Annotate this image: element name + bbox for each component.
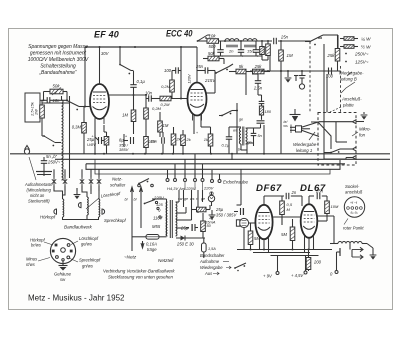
legend half watt resistor <box>340 44 371 50</box>
input box pickup <box>25 93 40 122</box>
svg-text:Löschkopf: Löschkopf <box>79 236 99 241</box>
wire ECC40 top <box>196 47 198 63</box>
svg-text:+ 4,5V: + 4,5V <box>291 273 304 278</box>
label 30V <box>101 51 110 56</box>
wire rails battery 1 <box>237 249 332 251</box>
svg-text:+: + <box>256 55 258 59</box>
wire shield top <box>42 96 70 103</box>
wire top HT bus left <box>84 46 197 108</box>
plug connector playback <box>290 125 302 134</box>
capacitor 10n coupling <box>145 91 156 102</box>
svg-text:10k: 10k <box>208 34 216 39</box>
wire mic to grid <box>244 223 256 250</box>
svg-text:Gehäuse: Gehäuse <box>54 272 72 277</box>
wire fb down <box>245 72 247 96</box>
wire heads bottom <box>63 215 99 220</box>
wire DF67 topcap <box>264 196 284 205</box>
svg-text:+ 9V: + 9V <box>263 274 273 279</box>
svg-text:+: + <box>241 55 243 59</box>
svg-text:ws: ws <box>233 129 238 133</box>
resistor 2k ECC40 cathode <box>181 130 192 154</box>
head Hoerkopf coil <box>40 199 64 220</box>
wire DL67 topcap <box>309 196 314 204</box>
capacitor 5n 250V <box>41 154 61 171</box>
resistor 0.5M DF67 <box>280 196 293 225</box>
label Gehaeuse <box>54 272 72 283</box>
svg-text:5n „b“: 5n „b“ <box>46 154 58 159</box>
svg-text:ECC 40: ECC 40 <box>166 29 193 39</box>
svg-text:350 / 385V: 350 / 385V <box>216 213 237 218</box>
wire filter ground <box>214 44 262 56</box>
svg-text:+: + <box>196 131 198 135</box>
svg-text:2n: 2n <box>228 49 234 54</box>
svg-text:anschluß: anschluß <box>345 190 363 195</box>
svg-text:„Bandaufnahme“: „Bandaufnahme“ <box>38 70 77 76</box>
wire rail 2 <box>55 158 390 160</box>
resistor 2.5+15k 2W <box>40 100 45 136</box>
wire fan crossing <box>302 122 320 137</box>
wire transformer primary <box>152 199 167 237</box>
tube label EF40 <box>94 30 119 40</box>
legend quarter watt resistor <box>340 37 371 42</box>
svg-text:ge/ws: ge/ws <box>81 242 93 247</box>
switch anode select <box>119 47 133 74</box>
svg-text:0,3M: 0,3M <box>72 125 82 130</box>
terminal erdschraube <box>203 180 248 191</box>
label Wiedergabeleitung B <box>339 71 364 94</box>
dashed box Anschlussplatte <box>318 113 356 166</box>
svg-text:Bandschalter: Bandschalter <box>200 253 225 258</box>
tube EF40 <box>90 84 109 124</box>
svg-text:25µ: 25µ <box>215 207 224 212</box>
label Verbindung <box>103 269 175 280</box>
svg-text:Wiedergab​e-: Wiedergab​e- <box>339 71 364 76</box>
tube label ECC40 <box>166 29 193 39</box>
capacitor filter mid <box>238 41 255 56</box>
label 215V <box>204 78 216 83</box>
capacitor 25n ECC40 <box>187 63 216 84</box>
dashed playback line <box>309 42 311 113</box>
svg-text:250V~: 250V~ <box>354 52 369 57</box>
svg-text:25n: 25n <box>195 64 204 69</box>
svg-text:ge: ge <box>239 118 243 122</box>
plug contact right 1 <box>319 120 357 124</box>
svg-text:M55: M55 <box>152 224 161 229</box>
svg-text:(Minusleitung: (Minusleitung <box>27 188 52 193</box>
label 15mA <box>205 218 216 225</box>
caption Metz - Musikus - Jahr 1952 <box>28 294 125 303</box>
resistor B+ vertical <box>262 41 270 60</box>
svg-text:Steckerstift): Steckerstift) <box>28 199 50 204</box>
wire section links <box>232 154 241 205</box>
label Sockelanschluss <box>345 184 363 195</box>
resistor 180 <box>259 104 271 120</box>
capacitor 100 grid <box>164 67 181 80</box>
label Minus pin <box>26 257 50 268</box>
svg-text:1M: 1M <box>122 113 128 118</box>
svg-text:120V: 120V <box>187 74 192 84</box>
svg-text:ge: ge <box>201 197 205 201</box>
resistor 1k ECC40 cathode <box>204 134 213 154</box>
antenna jack <box>299 71 306 89</box>
switch record <box>42 135 61 146</box>
svg-text:gemessen mit Instrument: gemessen mit Instrument <box>30 51 87 57</box>
switch playback B <box>305 35 338 48</box>
switch top ECC40 <box>197 35 210 42</box>
svg-text:25n: 25n <box>315 189 324 194</box>
socket pins <box>52 244 73 261</box>
plug contact mic 2 <box>346 155 357 159</box>
tube ECC40 <box>188 83 207 121</box>
wire heads top <box>54 186 99 200</box>
wire ground rail 1 <box>10 153 390 155</box>
svg-text:125V~: 125V~ <box>355 60 369 65</box>
resistor 2k bias <box>171 127 182 154</box>
capacitor 25n out <box>274 35 289 45</box>
wire rail 3 <box>86 163 345 165</box>
tube label DL67 <box>300 183 326 194</box>
wire ECC40 anode <box>207 73 216 93</box>
output choke <box>330 241 362 244</box>
switch ECC40 anode <box>215 64 233 74</box>
electrolytic 25u supply <box>180 224 198 231</box>
svg-text:200: 200 <box>313 260 322 265</box>
label heater terminals <box>167 186 196 191</box>
resistor 25k fb <box>253 46 271 74</box>
svg-text:gn/ws: gn/ws <box>82 264 94 269</box>
resistor 0.3M grid leak <box>72 107 87 154</box>
svg-text:1000Ω/V Meßbereich 300V: 1000Ω/V Meßbereich 300V <box>28 57 89 63</box>
svg-text:leitung B: leitung B <box>340 77 357 82</box>
resistor 25k decoupling <box>144 134 158 154</box>
capacitor filter right <box>253 41 259 56</box>
svg-text:¼ W: ¼ W <box>361 37 371 42</box>
svg-text:1,5A: 1,5A <box>208 247 216 251</box>
svg-text:Sockel-: Sockel- <box>345 184 360 189</box>
switch EF40 grid <box>66 100 90 111</box>
svg-text:0,2M: 0,2M <box>161 102 171 107</box>
capacitor 0.1u anode <box>130 71 145 95</box>
svg-text:Anschluß-: Anschluß- <box>341 97 362 102</box>
filter choke 2 <box>243 39 257 47</box>
resistor 0.2M grid <box>161 80 174 99</box>
svg-text:Schalterstellung: Schalterstellung <box>40 64 76 70</box>
svg-text:2W: 2W <box>35 109 39 116</box>
wire DL67 anode <box>317 216 334 241</box>
svg-text:250V~: 250V~ <box>47 160 61 165</box>
capacitor 180 top <box>258 95 264 104</box>
resistor supply H <box>192 205 211 212</box>
socket circle Sockelanschluss <box>344 197 364 217</box>
svg-text:25n: 25n <box>280 35 289 40</box>
svg-text:1M: 1M <box>163 123 169 128</box>
svg-text:+: + <box>221 55 223 59</box>
label wire colors <box>178 197 205 201</box>
svg-text:platte: platte <box>342 103 354 108</box>
terminal 0 <box>330 248 340 277</box>
svg-text:50k: 50k <box>52 84 60 89</box>
wire top HT bus mid <box>197 40 310 42</box>
svg-text:Netz-: Netz- <box>112 177 123 182</box>
capacitor EQ mid <box>247 121 265 128</box>
resistor 0.2M coupling <box>156 96 188 107</box>
svg-text:Hörkopf: Hörkopf <box>40 215 56 220</box>
svg-text:220V: 220V <box>203 186 214 191</box>
switch EQ <box>219 111 237 117</box>
ground record branch <box>36 172 52 177</box>
svg-text:EF 40: EF 40 <box>94 30 119 40</box>
svg-text:Aufnahme: Aufnahme <box>199 259 220 264</box>
ground mic <box>356 112 367 122</box>
head Sprechkopf coil <box>99 199 127 223</box>
svg-text:Sprechkopf: Sprechkopf <box>79 258 101 263</box>
svg-text:25k: 25k <box>254 64 263 69</box>
wire ECC40 cathode legs <box>194 115 211 134</box>
fuse 0.16A <box>132 235 167 253</box>
label Sprechkopf pin <box>70 258 101 269</box>
svg-text:ge: ge <box>184 197 188 201</box>
ground heads <box>74 188 81 199</box>
label 25u 350/385V <box>215 207 237 218</box>
svg-text:a₂ a₁: a₂ a₁ <box>351 211 358 215</box>
wire plate internal <box>324 113 347 153</box>
svg-text:5M: 5M <box>281 232 287 237</box>
resistor 1M detector <box>279 41 293 71</box>
legend 125V dot <box>345 60 369 65</box>
electrolytic smoothing <box>234 208 244 215</box>
capacitor 2.5n fb <box>252 74 263 95</box>
svg-text:Erdschraube: Erdschraube <box>223 180 248 185</box>
ground mid <box>285 71 292 83</box>
svg-text:~Netz: ~Netz <box>124 255 137 260</box>
svg-text:br/ws: br/ws <box>31 243 42 248</box>
svg-text:Mikro-: Mikro- <box>359 127 372 132</box>
label Hoerkopf pin <box>30 238 53 248</box>
svg-text:Steckfassung von unten gese: Steckfassung von unten gesehen <box>108 275 173 280</box>
cable shield wavy <box>62 100 70 180</box>
wire rail drops <box>260 238 314 253</box>
wire playback drop 1 <box>323 44 325 113</box>
wire DF67 cathode drop <box>264 238 309 250</box>
svg-text:30V: 30V <box>101 51 110 56</box>
svg-text:nicht an: nicht an <box>30 193 45 198</box>
svg-text:Sprechkopf: Sprechkopf <box>104 218 127 223</box>
dashed line B <box>340 66 342 113</box>
svg-text:10n: 10n <box>145 91 153 96</box>
label Loeschkopf pin <box>71 236 99 247</box>
ground erdschraube <box>212 170 220 180</box>
wire playback drop 2 <box>326 74 328 113</box>
wire rails battery 2 <box>253 253 319 256</box>
switch mode <box>199 253 246 276</box>
resistor screen dropper <box>260 41 265 60</box>
svg-text:1M: 1M <box>287 53 293 58</box>
switch in plate <box>324 149 346 159</box>
resistor 1M screen <box>122 110 136 122</box>
svg-text:5n: 5n <box>258 133 262 138</box>
label brws <box>284 120 289 128</box>
svg-text:10M: 10M <box>331 204 339 209</box>
svg-text:Aus: Aus <box>204 271 213 276</box>
text Aufnahmetaste <box>24 157 53 204</box>
microphone symbol <box>236 218 248 227</box>
svg-text:Wiedergabe-: Wiedergabe- <box>293 142 318 147</box>
svg-text:220V: 220V <box>153 196 165 201</box>
svg-text:Aufnahmetaste: Aufnahmetaste <box>24 182 53 187</box>
label Netzteil <box>158 258 174 263</box>
note voltage measurement text <box>28 44 89 76</box>
tube label DF67 <box>256 183 282 194</box>
svg-text:DF67: DF67 <box>256 183 282 194</box>
legend 250V dot <box>345 52 369 57</box>
transformer EQ <box>233 127 252 152</box>
wire chassis loop <box>86 159 340 174</box>
electrolytic 8u <box>119 134 134 152</box>
svg-text:25k: 25k <box>326 53 335 58</box>
svg-text:Metz - Musikus - Jahr 1952: Metz - Musikus - Jahr 1952 <box>28 294 125 303</box>
resistor 0.2M screen2 <box>144 95 162 134</box>
trimmer resistor 50k <box>44 84 68 96</box>
tube DF67 <box>255 205 272 244</box>
wire input node <box>40 92 68 102</box>
electrolytic 25u cathode <box>86 119 107 154</box>
terminal +4.5V <box>291 256 309 279</box>
diode rectifier <box>176 236 205 247</box>
svg-text:Bandlaufwerk: Bandlaufwerk <box>64 225 93 230</box>
label roter Punkt <box>343 219 364 231</box>
capacitor 10n input <box>44 97 68 103</box>
svg-text:0,1µ: 0,1µ <box>137 79 146 84</box>
capacitor 0.1u EQ <box>222 127 242 154</box>
svg-text:bl: bl <box>125 198 128 202</box>
svg-text:15mA: 15mA <box>205 220 216 225</box>
svg-text:180: 180 <box>265 109 272 114</box>
resistor 1M decoupling <box>158 112 169 137</box>
capacitor 100 output <box>326 68 341 79</box>
terminal +9V <box>263 256 279 279</box>
wire screen <box>133 95 135 112</box>
resistor 10M DL67 <box>317 201 339 221</box>
svg-text:leitung 1: leitung 1 <box>296 148 313 153</box>
tube DL67 <box>301 204 318 243</box>
mains plug arrow <box>141 241 144 248</box>
wire plate slant <box>311 122 331 149</box>
label Anschlussplatte <box>330 97 362 113</box>
fuse 1.5A <box>202 238 217 258</box>
label Netz <box>124 255 137 260</box>
svg-text:Minus: Minus <box>26 257 38 262</box>
wire screen resistor down <box>133 122 135 135</box>
svg-text:schalter: schalter <box>110 183 126 188</box>
filter choke 1 <box>225 39 239 47</box>
resistor cathode 2k <box>104 125 109 154</box>
socket ground <box>59 261 68 271</box>
capacitor 5n EQ <box>247 128 262 143</box>
svg-text:385V: 385V <box>119 147 129 152</box>
wire EQ bottoms <box>241 125 265 155</box>
transformer mains <box>166 200 177 238</box>
svg-text:0,16A: 0,16A <box>146 242 157 247</box>
plug contact mic 1 <box>340 127 372 152</box>
svg-text:110V: 110V <box>153 216 164 221</box>
ground arrow playback <box>290 109 301 122</box>
svg-text:bl: bl <box>134 198 137 202</box>
wire secondary taps <box>176 182 203 229</box>
node bus to ECC40 grid <box>180 47 182 100</box>
wire EQ vertical <box>236 103 243 154</box>
svg-text:Verbindung Verstärker-Bandlau: Verbindung Verstärker-Bandlaufwerk <box>103 269 175 274</box>
label Bandlaufwerk <box>64 225 93 230</box>
wire EF40 anode top <box>99 47 101 84</box>
ground supply mid <box>209 210 216 220</box>
resistor 5k <box>229 64 252 74</box>
terminal pair mid <box>294 75 298 81</box>
terminal row heater <box>166 154 204 182</box>
svg-text:½ W: ½ W <box>361 44 371 50</box>
indicator lamp <box>208 192 214 206</box>
svg-text:+f −f: +f −f <box>350 201 358 205</box>
svg-text:Spannungen gegen Masse: Spannungen gegen Masse <box>28 44 88 50</box>
capacitor 25n bypass <box>147 132 164 154</box>
wire EF40 anode to cap <box>109 94 147 96</box>
capacitor 2n filter <box>217 41 234 56</box>
resistor supply V <box>201 213 212 238</box>
polarity marks <box>91 55 258 139</box>
svg-text:2n: 2n <box>291 190 297 195</box>
svg-text:sw: sw <box>178 197 183 201</box>
switch voltage select <box>141 196 165 230</box>
svg-text:25n: 25n <box>147 139 155 144</box>
svg-text:100: 100 <box>164 68 172 73</box>
svg-text:250 E 30: 250 E 30 <box>176 242 194 247</box>
svg-text:0,2M: 0,2M <box>161 84 171 89</box>
svg-text:rt/ws: rt/ws <box>26 262 36 267</box>
svg-text:träge: träge <box>147 247 157 252</box>
svg-text:Wiedergabe: Wiedergabe <box>200 265 223 270</box>
border frame <box>9 29 393 310</box>
capacitor 25n DL67 <box>315 189 327 202</box>
wire mid horizontal <box>250 70 334 72</box>
head Loeschkopf coil <box>78 191 121 215</box>
resistor 50k anode <box>203 51 224 64</box>
label Wiedergabeleitung 1 <box>293 132 318 153</box>
wire DF67 anode to DL67 <box>273 217 301 225</box>
svg-text:fon: fon <box>359 133 366 138</box>
svg-text:ws: ws <box>190 197 195 201</box>
svg-text:roter Punkt: roter Punkt <box>343 226 364 231</box>
jack Aufnahmetaste <box>24 146 29 155</box>
svg-text:Netzteil: Netzteil <box>158 258 174 263</box>
resistor 5M mic <box>248 223 260 250</box>
ground output <box>367 244 376 260</box>
wire detector drop <box>280 70 282 154</box>
resistor 200 <box>306 250 321 270</box>
resistor 5M DF67 grid2 <box>281 219 295 250</box>
resistor 25k output <box>326 35 339 71</box>
capacitor 2n DF67 <box>286 190 302 206</box>
wire mains leads <box>125 187 143 251</box>
output arrows <box>350 244 367 260</box>
socket circle <box>50 238 75 263</box>
svg-text:500: 500 <box>209 44 217 49</box>
resistor 10k 500 <box>207 34 219 50</box>
connector row X <box>52 169 101 191</box>
switch Netzschalter <box>110 177 153 188</box>
svg-text:ws: ws <box>284 124 288 128</box>
